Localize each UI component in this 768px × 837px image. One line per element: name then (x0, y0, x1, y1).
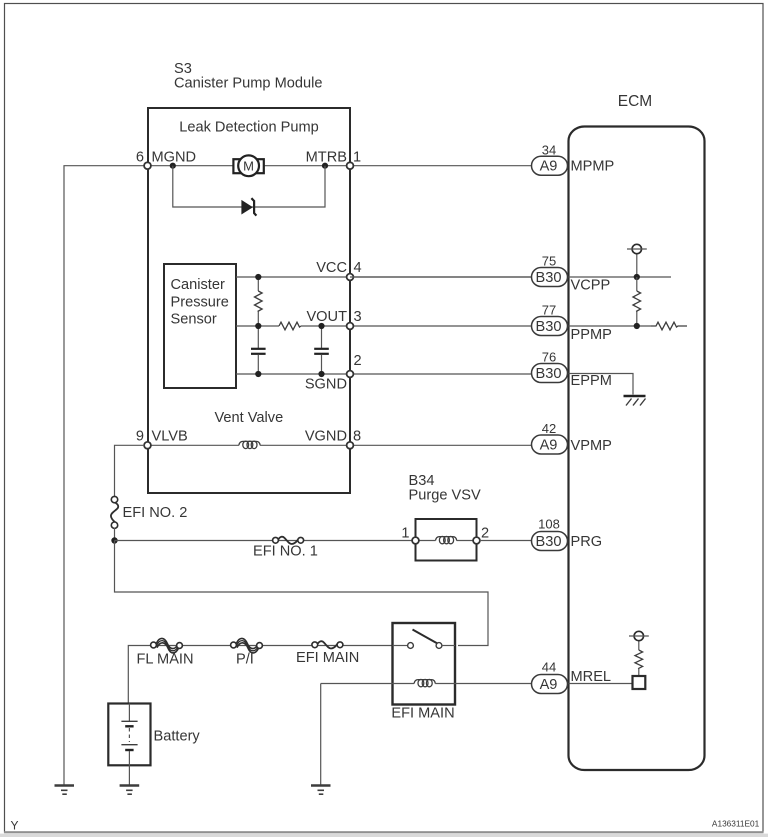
junction dot VOUT-R1 (255, 323, 261, 329)
svg-text:VCC: VCC (316, 260, 347, 276)
svg-text:4: 4 (354, 260, 362, 276)
motor M1 (233, 155, 263, 176)
svg-text:B30: B30 (536, 319, 562, 335)
driver block MREL (633, 676, 646, 689)
svg-text:B30: B30 (536, 366, 562, 382)
pin 9 circle VLVB (144, 442, 151, 449)
connector pill B30 PRG (532, 532, 568, 551)
pin 2 circle SGND (347, 371, 354, 378)
svg-text:Vent Valve: Vent Valve (215, 410, 284, 426)
wire MTRB motor line inside pump (148, 165, 350, 167)
wire VOUT right (301, 325, 533, 327)
pin 1 circle MTRB (347, 162, 354, 169)
pin 6 circle MGND (144, 162, 151, 169)
junction dot VCC-R1 (255, 274, 261, 280)
svg-text:8: 8 (353, 429, 361, 445)
svg-text:1: 1 (401, 526, 409, 542)
wire VSV coil to pin2 (457, 540, 474, 542)
wire diode branch (173, 166, 325, 207)
svg-text:42: 42 (542, 421, 556, 436)
svg-text:44: 44 (542, 659, 556, 674)
svg-text:ECM: ECM (618, 93, 652, 110)
svg-text:Y: Y (11, 819, 19, 833)
svg-text:A9: A9 (540, 437, 558, 453)
wire EFI NO.1 row (115, 540, 416, 542)
junction dot MTRB (322, 163, 328, 169)
battery B1 (108, 704, 150, 766)
svg-text:MREL: MREL (571, 669, 612, 685)
power symbol B+ MREL (629, 631, 649, 650)
capacitor C1 (251, 326, 266, 374)
relay EFI MAIN box (393, 623, 456, 705)
svg-text:2: 2 (481, 526, 489, 542)
svg-text:MGND: MGND (152, 149, 197, 165)
junction dot EFI (111, 537, 117, 543)
pin 4 circle VCC (347, 274, 354, 281)
wire MPMP to ECM (350, 165, 533, 167)
svg-text:VCPP: VCPP (571, 278, 611, 294)
svg-text:1: 1 (353, 149, 361, 165)
svg-text:VGND: VGND (305, 429, 347, 445)
resistor R2 series VOUT (279, 322, 301, 330)
svg-text:MTRB: MTRB (306, 149, 347, 165)
junction dot MGND (170, 163, 176, 169)
svg-text:FL MAIN: FL MAIN (137, 652, 194, 668)
wire VOUT left (236, 325, 279, 327)
svg-text:Canister Pump Module: Canister Pump Module (174, 75, 322, 91)
box B34 Purge VSV (416, 519, 477, 561)
svg-text:Battery: Battery (154, 729, 201, 745)
relay coil wire (321, 683, 414, 685)
svg-text:VLVB: VLVB (152, 429, 188, 445)
svg-text:EFI MAIN: EFI MAIN (391, 706, 454, 722)
svg-text:75: 75 (542, 254, 556, 269)
wire VGND (148, 444, 239, 446)
svg-text:6: 6 (136, 149, 144, 165)
junction dot SGND-C1 (255, 371, 261, 377)
svg-text:Pressure: Pressure (171, 294, 229, 310)
svg-text:EFI NO. 2: EFI NO. 2 (123, 505, 188, 521)
wire battery to ground (128, 765, 130, 784)
svg-text:MPMP: MPMP (571, 158, 615, 174)
chassis ground EPPM (624, 396, 646, 406)
svg-text:VPMP: VPMP (571, 438, 612, 454)
svg-text:108: 108 (538, 516, 560, 531)
pin 2 circle VSV (473, 537, 480, 544)
svg-text:A136311E01: A136311E01 (712, 818, 760, 828)
ECM internal MREL wire (569, 683, 633, 685)
wire PRG (480, 540, 534, 542)
ground G2 battery (120, 786, 140, 795)
svg-text:SGND: SGND (305, 377, 347, 393)
svg-text:76: 76 (542, 350, 556, 365)
svg-text:EFI MAIN: EFI MAIN (296, 650, 359, 666)
svg-text:9: 9 (136, 429, 144, 445)
svg-text:77: 77 (542, 303, 556, 318)
inductor L2 purge coil (436, 536, 457, 543)
pin 8 circle VGND (347, 442, 354, 449)
wire fuse to junction (114, 528, 116, 541)
diode D1 (242, 198, 256, 215)
junction dot VOUT-C2 (318, 323, 324, 329)
pin 3 circle VOUT (347, 323, 354, 330)
svg-text:PPMP: PPMP (571, 327, 612, 343)
svg-text:Purge VSV: Purge VSV (409, 488, 481, 504)
fuse EFI NO.1 (273, 537, 304, 544)
wire MGND left run (64, 166, 145, 785)
connector pill A9 VPMP (532, 435, 568, 454)
connector pill A9 MPMP (532, 156, 568, 175)
relay switch contacts (393, 630, 456, 649)
wire SGND (236, 373, 533, 375)
svg-text:Leak Detection Pump: Leak Detection Pump (179, 120, 319, 136)
power symbol B+ VCPP (627, 244, 647, 277)
wire VLVB to fuse (115, 445, 145, 497)
junction dot VCPP (634, 274, 640, 280)
svg-text:P/I: P/I (236, 652, 254, 668)
svg-text:A9: A9 (540, 158, 558, 174)
resistor R3 pull-up (633, 277, 641, 326)
svg-text:B30: B30 (536, 534, 562, 550)
svg-text:B30: B30 (536, 270, 562, 286)
svg-text:EFI NO. 1: EFI NO. 1 (253, 544, 318, 560)
connector pill A9 MREL (532, 675, 568, 694)
inductor L3 relay coil (414, 679, 435, 686)
wire relay coil to ground (320, 684, 322, 785)
resistor R1 sensor pull (254, 277, 262, 326)
box S3 Leak Detection Pump (148, 108, 350, 493)
box ECM U1 (569, 127, 705, 771)
fusible link FL MAIN (151, 638, 183, 652)
svg-text:3: 3 (354, 309, 362, 325)
resistor R4 series PPMP (651, 322, 687, 330)
svg-text:M: M (243, 159, 254, 174)
svg-text:A9: A9 (540, 677, 558, 693)
fuse EFI MAIN (312, 641, 343, 648)
wire junction to relay (115, 541, 489, 646)
capacitor C2 (314, 326, 329, 374)
ECM internal PPMP node wire (569, 325, 652, 327)
svg-text:Sensor: Sensor (171, 312, 217, 328)
ECM internal VCPP node wire (569, 276, 672, 278)
svg-text:34: 34 (542, 143, 556, 158)
svg-text:VOUT: VOUT (306, 309, 347, 325)
wire VCPP stub (350, 276, 532, 278)
svg-text:PRG: PRG (571, 534, 603, 550)
svg-text:EPPM: EPPM (571, 373, 612, 389)
connector pill B30 PPMP (532, 317, 568, 336)
connector pill B30 VCPP (532, 268, 568, 287)
wire VSV pin1 to coil (419, 540, 436, 542)
ground G1 bottom-left (55, 786, 75, 795)
connector pill B30 EPPM (532, 364, 568, 383)
fusible link P/I (231, 638, 263, 652)
svg-text:Canister: Canister (171, 277, 225, 293)
wire battery feed row (128, 646, 410, 704)
svg-text:2: 2 (354, 353, 362, 369)
ECM internal EPPM wire (569, 374, 634, 395)
fuse EFI NO.2 (111, 496, 118, 528)
box Canister Pressure Sensor (164, 264, 236, 388)
ground G3 relay (311, 786, 331, 795)
wire VCC (236, 276, 533, 278)
pin 1 circle VSV (412, 537, 419, 544)
resistor R5 MREL (635, 650, 643, 676)
junction dot SGND-C2 (318, 371, 324, 377)
junction dot PPMP (634, 323, 640, 329)
inductor L1 vent valve coil (239, 441, 260, 448)
